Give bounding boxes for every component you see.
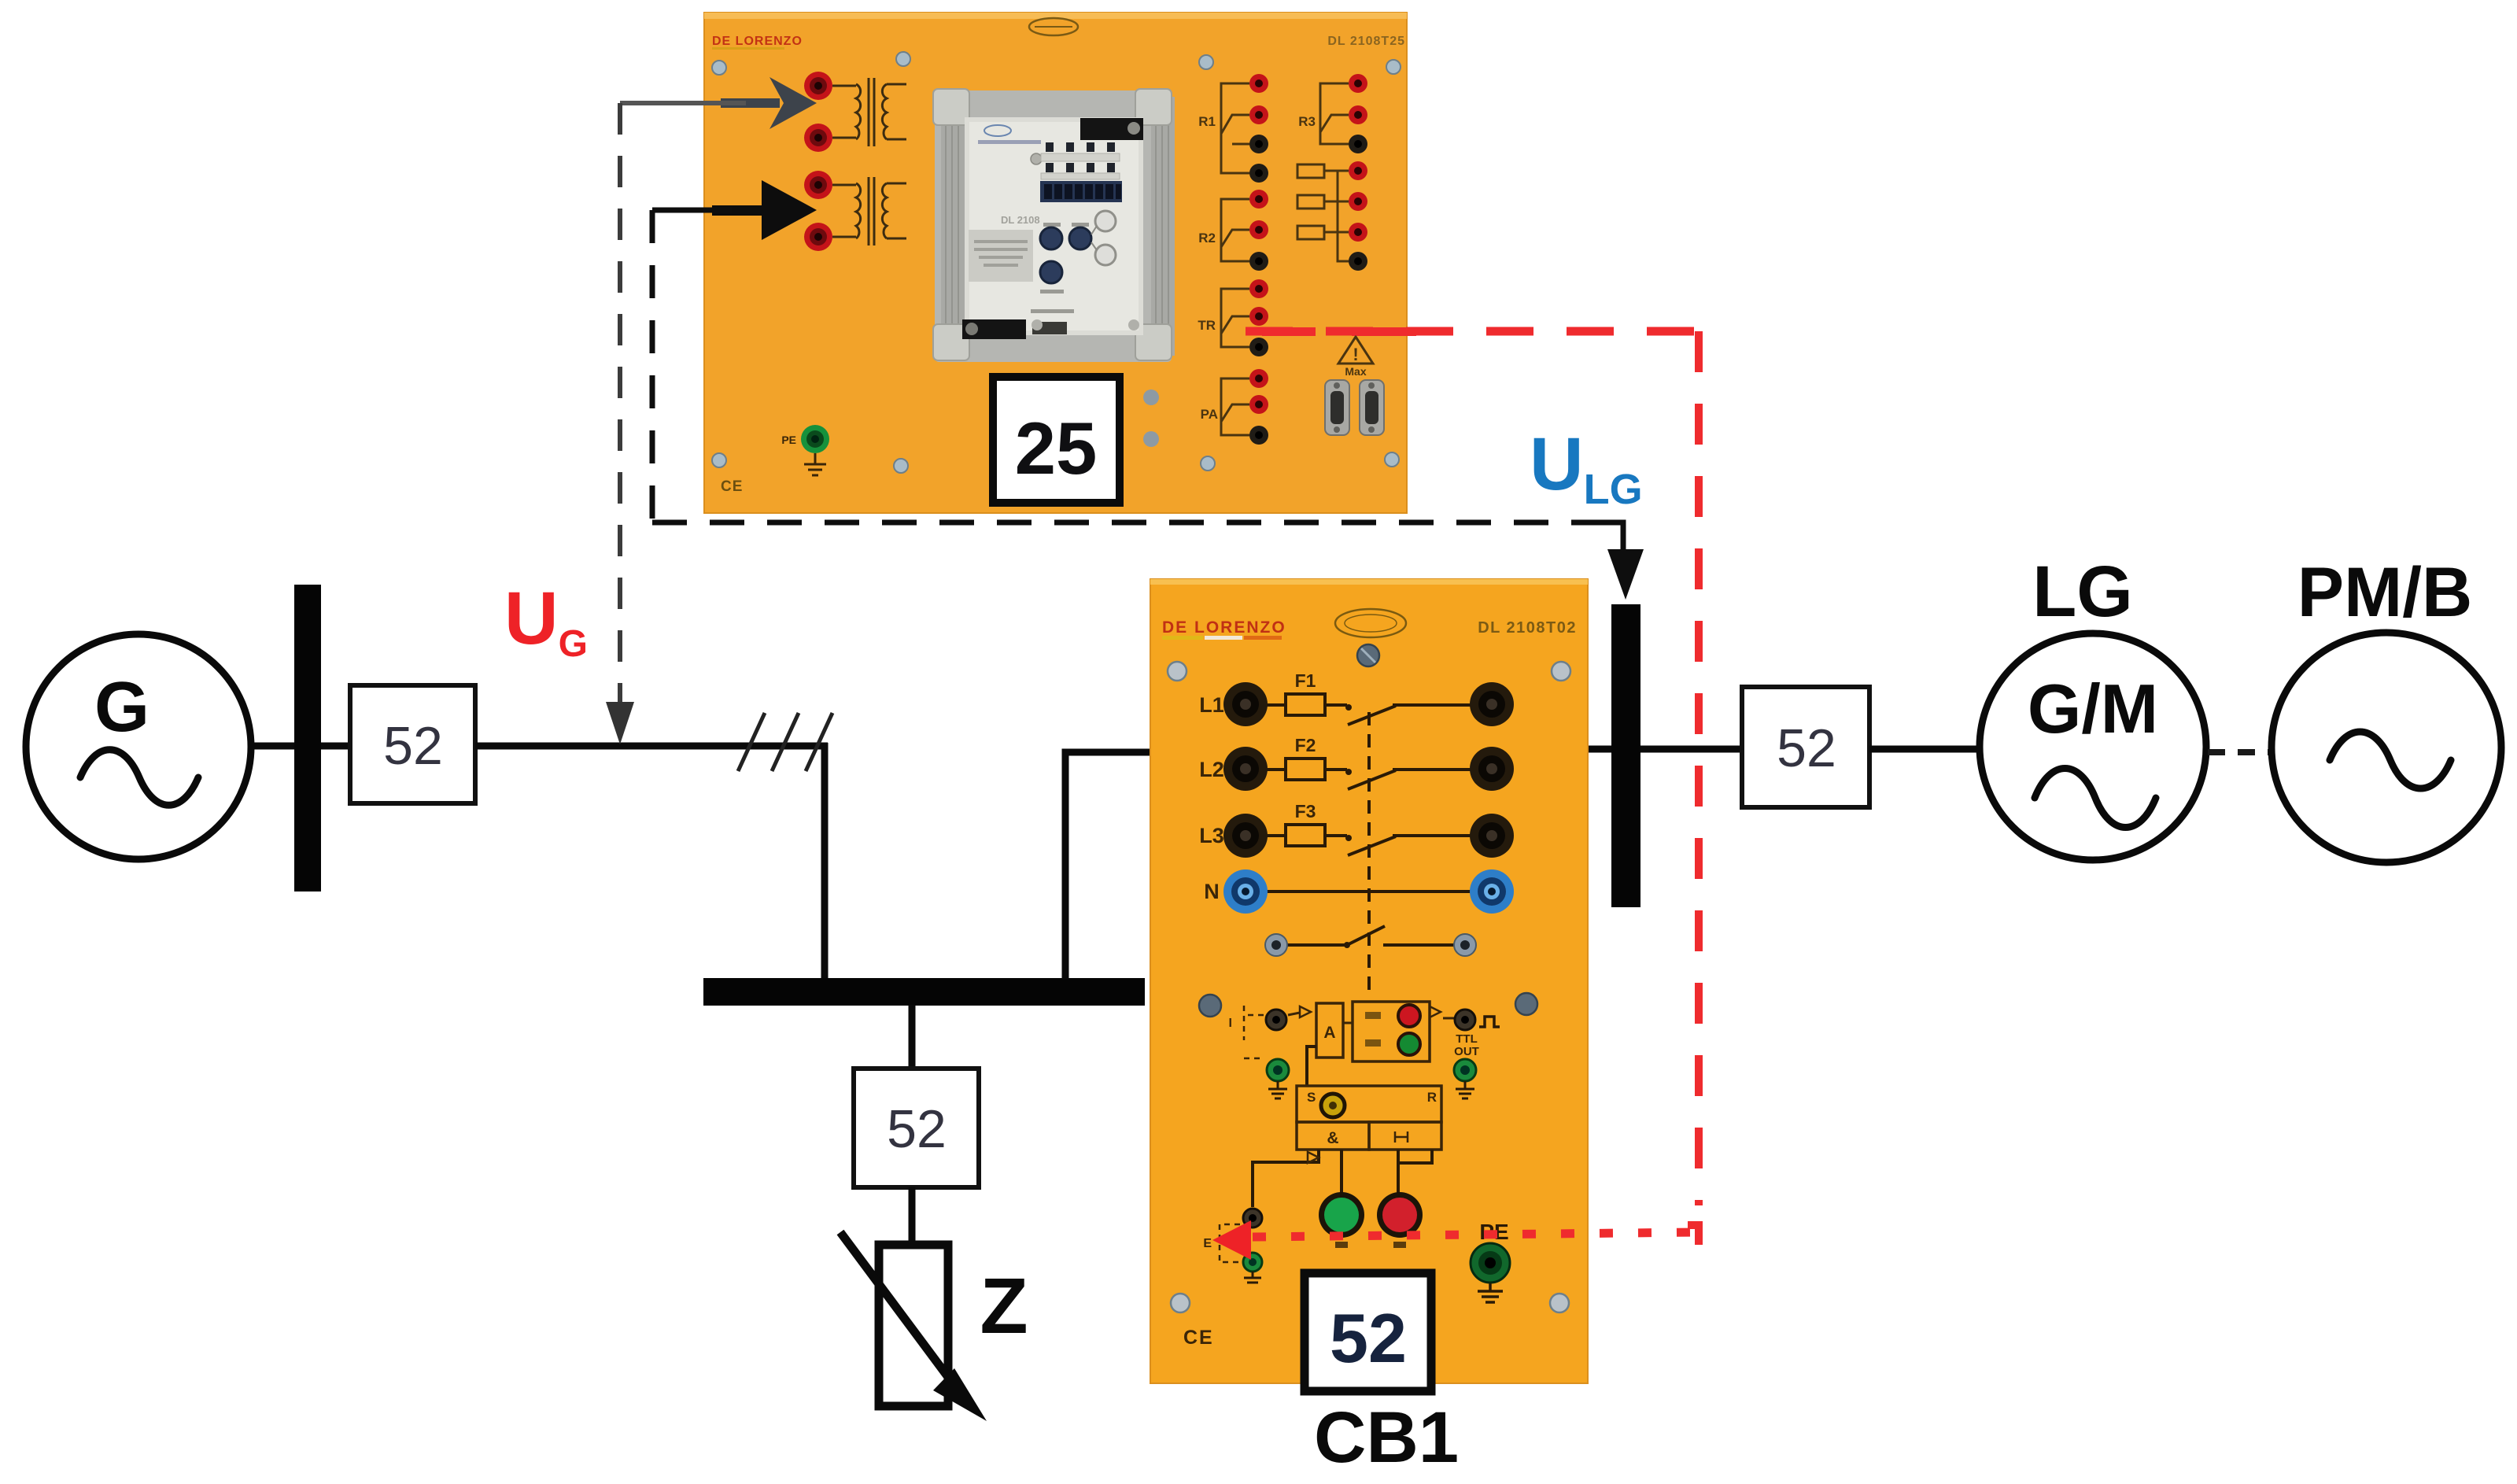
input V2 jacks (red) xyxy=(804,171,832,251)
svg-text:25: 25 xyxy=(1015,407,1098,489)
relay unit aluminium frame xyxy=(935,90,1172,362)
wire B3 to breaker 52-3 xyxy=(1640,746,1744,753)
impedance Z symbol xyxy=(879,1245,948,1406)
svg-text:52: 52 xyxy=(1777,718,1836,778)
svg-text:F1: F1 xyxy=(1295,670,1316,691)
contact group R1 xyxy=(1221,83,1249,173)
svg-text:PE: PE xyxy=(781,434,796,446)
dashed shaft link LG to PM/B xyxy=(2208,749,2272,755)
busbar B1 xyxy=(294,585,321,892)
svg-text:52: 52 xyxy=(1330,1299,1407,1377)
svg-text:TTL: TTL xyxy=(1456,1032,1478,1046)
wire B2 up to CB1 panel xyxy=(1065,752,1151,980)
neutral N path xyxy=(1267,890,1471,893)
svg-text:Z: Z xyxy=(980,1262,1028,1350)
phase L3 path xyxy=(1267,825,1471,855)
svg-text:A: A xyxy=(1323,1024,1335,1042)
svg-text:I: I xyxy=(1229,1017,1232,1030)
svg-text:Max: Max xyxy=(1345,365,1366,378)
svg-text:LG: LG xyxy=(2032,552,2133,632)
svg-text:DL 2108T02: DL 2108T02 xyxy=(1478,619,1577,637)
busbar B2 xyxy=(703,978,1145,1006)
wire corner down to busbar B2 xyxy=(821,743,829,980)
breaker 52 box #3 xyxy=(1742,687,1869,807)
external trip jack xyxy=(1243,1209,1262,1227)
ULG sense wire: long horizontal dashed under relay panel xyxy=(652,520,1591,526)
svg-text:R2: R2 xyxy=(1198,231,1216,245)
trip coil input jack xyxy=(1266,1010,1286,1030)
TTL output xyxy=(1430,1006,1441,1017)
svg-text:52: 52 xyxy=(887,1099,947,1159)
ULG sense wire: vertical dashed xyxy=(650,210,655,522)
wires to buttons xyxy=(1340,1150,1343,1193)
svg-text:F2: F2 xyxy=(1295,735,1316,755)
oval logo xyxy=(1335,609,1406,637)
svg-text:CB1: CB1 xyxy=(1314,1397,1459,1478)
svg-text:DE LORENZO: DE LORENZO xyxy=(1162,618,1286,637)
wire coil to latch xyxy=(1307,1047,1316,1086)
svg-text:!: ! xyxy=(1353,345,1358,364)
breaker 52 box #2 xyxy=(854,1069,979,1187)
generator G sine wave xyxy=(80,750,198,806)
svg-text:52: 52 xyxy=(383,716,443,776)
relay top-right black module xyxy=(1080,118,1143,140)
wire 52-1 to corner xyxy=(475,743,828,750)
ULG elbow and arrow down to busbar B3 xyxy=(1591,522,1623,551)
svg-text:R1: R1 xyxy=(1198,114,1216,129)
input V1 jacks (red) xyxy=(804,72,832,152)
output link boxes xyxy=(1297,164,1349,261)
wire B2 down to breaker 52-2 xyxy=(909,1005,916,1070)
phase L2 path xyxy=(1267,759,1471,789)
svg-text:CE: CE xyxy=(721,478,743,495)
ULG sense wire: horizontal into relay V2 input xyxy=(652,208,732,213)
contact group PA xyxy=(1221,378,1249,435)
svg-text:R: R xyxy=(1427,1090,1437,1105)
svg-text:PM/B: PM/B xyxy=(2297,552,2473,631)
svg-text:L1: L1 xyxy=(1199,693,1224,717)
trip wire red dashed: bottom horizontal dotted xyxy=(1253,1232,1699,1237)
svg-text:&: & xyxy=(1327,1129,1338,1147)
DB9 connectors xyxy=(1325,380,1384,435)
panel screws xyxy=(712,52,1401,473)
UG sense wire: horizontal into relay V1 input xyxy=(620,101,746,105)
generator G circle xyxy=(26,634,251,859)
svg-text:DE LORENZO: DE LORENZO xyxy=(712,35,803,48)
trip coil box A xyxy=(1316,1003,1343,1058)
svg-text:PA: PA xyxy=(1201,407,1218,422)
close pushbutton (green) xyxy=(1319,1192,1364,1238)
trip wire red dashed: top horizontal xyxy=(1246,327,1699,336)
svg-text:TR: TR xyxy=(1198,318,1216,333)
coil marker triangle xyxy=(1300,1006,1311,1017)
relay 7-seg display xyxy=(1040,181,1122,202)
arrow into V2 (black) xyxy=(712,180,817,240)
svg-text:R3: R3 xyxy=(1298,114,1316,129)
generator LG G/M circle xyxy=(1980,633,2206,860)
svg-text:DL 2108T25: DL 2108T25 xyxy=(1327,35,1405,48)
UG sense wire: vertical dashed xyxy=(618,103,622,707)
UG arrowhead down onto wire xyxy=(606,702,634,744)
relay bottom black strip xyxy=(962,319,1026,339)
relay dip switch rows xyxy=(1041,142,1120,179)
trip wire red dashed: vertical xyxy=(1695,331,1703,1205)
svg-text:N: N xyxy=(1204,880,1220,903)
trip wire red elbow at bottom xyxy=(1688,1221,1701,1245)
lamp box xyxy=(1353,1002,1430,1061)
line break slashes /// xyxy=(738,713,832,771)
device number box 52 xyxy=(1305,1273,1431,1391)
svg-text:G/M: G/M xyxy=(2028,670,2158,748)
busbar B3 xyxy=(1611,604,1640,907)
trip red arrow into CB1 xyxy=(1212,1220,1251,1260)
PE ground jack xyxy=(801,425,829,453)
logic cells xyxy=(1297,1122,1369,1150)
breaker mechanical dashed link xyxy=(1367,712,1371,990)
svg-text:G: G xyxy=(94,668,149,747)
red trip segments on panel xyxy=(1262,327,1316,336)
external trip bracket E xyxy=(1220,1224,1240,1262)
arrow into V1 (dark gray) xyxy=(721,77,817,129)
frame corner caps xyxy=(933,89,1172,360)
panel screws xyxy=(1168,662,1570,1312)
latch S/R box xyxy=(1297,1086,1441,1122)
breaker panel DL2108T02 board xyxy=(1150,579,1588,1383)
auxiliary contact xyxy=(1286,926,1455,945)
device number box 25 xyxy=(993,377,1120,503)
svg-text:L2: L2 xyxy=(1199,758,1224,781)
svg-text:F3: F3 xyxy=(1295,801,1316,821)
svg-text:L3: L3 xyxy=(1199,824,1224,847)
contact group R2 xyxy=(1221,199,1249,261)
phase L1 path xyxy=(1267,694,1471,725)
wire CB1 panel to busbar B3 xyxy=(1587,746,1613,753)
relay knobs and buttons xyxy=(1043,223,1061,227)
wire 52-2 down to impedance Z xyxy=(909,1187,916,1245)
wire 52-3 to generator LG xyxy=(1869,746,1982,753)
warning triangle Max xyxy=(1338,337,1373,364)
transformer T2 xyxy=(832,177,906,245)
transformer T1 xyxy=(832,78,906,146)
svg-text:S: S xyxy=(1307,1090,1316,1105)
breaker 52 box #1 xyxy=(350,685,475,803)
svg-text:CE: CE xyxy=(1183,1327,1214,1349)
wire G to busbar B1 xyxy=(249,743,296,750)
relay panel DL2108T25 board xyxy=(704,13,1407,513)
contact group TR xyxy=(1221,289,1249,347)
relay face logo xyxy=(984,125,1011,136)
open pushbutton (red) xyxy=(1377,1192,1423,1238)
svg-text:E: E xyxy=(1203,1237,1212,1250)
oval logo xyxy=(1029,18,1078,35)
wire B1 to breaker 52-1 xyxy=(321,743,352,750)
svg-text:OUT: OUT xyxy=(1454,1045,1479,1058)
svg-text:DL 2108: DL 2108 xyxy=(1001,214,1040,226)
contact group R3 xyxy=(1320,83,1349,144)
ground jacks xyxy=(1267,1059,1289,1098)
motor PM/B circle xyxy=(2272,633,2501,862)
relay face xyxy=(965,117,1143,335)
